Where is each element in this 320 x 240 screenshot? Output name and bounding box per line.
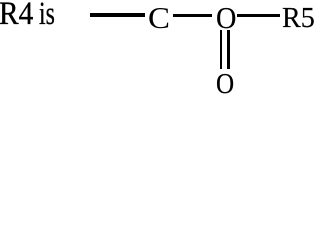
node atom O (carbonyl oxygen, bottom) [216, 71, 234, 100]
node atom C [148, 3, 170, 34]
node R4 label "R4" [0, 0, 33, 31]
wire bond from R4 to C [90, 13, 145, 16]
node text "is" [39, 0, 55, 31]
wire bond C to O [173, 14, 213, 17]
wire double bond line 1 (C=O drawn below ester O) [220, 30, 222, 69]
wire bond O to R5 [237, 14, 280, 17]
node atom O (ester oxygen) [216, 3, 236, 34]
wire double bond line 2 [227, 30, 229, 69]
node R5 label [282, 4, 315, 33]
